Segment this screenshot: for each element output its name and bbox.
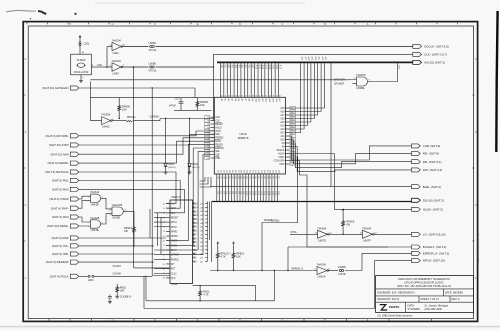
svg-text:.047uF: .047uF (169, 105, 177, 108)
svg-text:BUSHLT- (SHT.3): BUSHLT- (SHT.3) (423, 245, 446, 249)
inductor L301 (79, 42, 81, 44)
svg-text:CLK- (SHT.4,5,7): CLK- (SHT.4,5,7) (424, 53, 447, 57)
AND gate U644B 74AS08 (91, 220, 101, 228)
title block row dividers (376, 289, 474, 302)
svg-text:A10: A10 (280, 139, 285, 142)
svg-text:D11: D11 (248, 170, 250, 173)
svg-text:31: 31 (207, 124, 209, 126)
CPU top pin wires to address bus (220, 63, 278, 97)
svg-text:D14: D14 (257, 170, 259, 173)
svg-text:A14: A14 (268, 99, 271, 102)
svg-text:U642: U642 (113, 51, 120, 55)
capacitor C604 with ground (108, 295, 112, 300)
svg-text:D3: D3 (225, 170, 227, 172)
svg-text:25: 25 (163, 236, 165, 238)
svg-text:A10: A10 (254, 65, 257, 70)
svg-text:A19: A19 (311, 57, 314, 60)
svg-text:PEACK: PEACK (277, 149, 285, 152)
svg-text:G: G (112, 23, 114, 26)
svg-text:D19: D19 (272, 170, 274, 173)
svg-text:NPCS- (SHT.10): NPCS- (SHT.10) (423, 259, 445, 263)
off-page flag RA1 (52, 178, 79, 182)
svg-text:M/IO: M/IO (279, 164, 284, 166)
wire SOCLK- to right flag (156, 46, 413, 48)
svg-text:G: G (112, 319, 114, 322)
svg-text:A12: A12 (280, 132, 285, 135)
svg-text:(SHT.3) REFERF: (SHT.3) REFERF (46, 260, 69, 264)
junction (261, 270, 262, 271)
svg-text:NMI: NMI (215, 134, 220, 136)
wire ERROR_A bottom rail (210, 270, 274, 272)
svg-text:D16: D16 (263, 170, 265, 173)
U614 data pin collector wires (208, 202, 212, 263)
svg-text:DRAWN BY: B.R.R.: DRAWN BY: B.R.R. (377, 297, 400, 301)
svg-text:(SHT.4) RA3: (SHT.4) RA3 (52, 215, 69, 219)
wires gate outputs to U639B (101, 198, 112, 224)
svg-text:74AS04: 74AS04 (112, 59, 122, 63)
svg-text:PEREQ-: PEREQ- (264, 220, 273, 222)
off-page flag HLDA- (412, 207, 443, 211)
wire gate output to A19 bus (368, 63, 398, 81)
svg-text:ENGINEER: B.M. NIEDZWIECKI: ENGINEER: B.M. NIEDZWIECKI (377, 291, 415, 295)
svg-text:30: 30 (207, 121, 209, 123)
svg-text:(SHT.6) RA1: (SHT.6) RA1 (52, 179, 69, 183)
svg-text:U642A: U642A (318, 275, 326, 279)
wires CPU shared status pins down to U614 (166, 145, 211, 255)
svg-text:U644B: U644B (91, 228, 99, 232)
svg-text:470-0L: 470-0L (149, 48, 158, 52)
diode D603 (165, 119, 167, 164)
wire RETGNA routing (79, 172, 176, 204)
svg-text:10K: 10K (120, 289, 125, 293)
scan artifact faint streak bottom (0, 326, 500, 328)
wire CLK to CPU (156, 66, 214, 68)
svg-text:L608N: L608N (338, 265, 346, 269)
inverter U607E 74AS04 (318, 230, 328, 238)
off-page flag REFE- (47, 224, 79, 228)
svg-text:D7: D7 (237, 170, 239, 172)
svg-text:UB: UB (124, 229, 128, 233)
off-page flag INTR (49, 143, 79, 147)
svg-text:(C) 1985 Zenith Data Systems: (C) 1985 Zenith Data Systems (378, 314, 414, 318)
+5V arrow above RP612-7 (217, 242, 219, 246)
svg-text:16 MHZ: 16 MHZ (76, 58, 86, 62)
svg-text:ASSY NO. 181-4916-2B FOR PN 8: ASSY NO. 181-4916-2B FOR PN 85-3241-01 (397, 284, 452, 288)
resistor RP613 (133, 224, 136, 237)
svg-text:D: D (239, 23, 241, 26)
junction RP613 to ISA- line (133, 245, 134, 246)
svg-text:DHE: DHE (215, 158, 220, 160)
svg-text:74AS08: 74AS08 (90, 216, 100, 220)
svg-text:A13: A13 (280, 128, 285, 131)
wire to U642 input (106, 47, 108, 68)
svg-text:A18: A18 (280, 111, 285, 114)
svg-text:A16: A16 (300, 57, 303, 60)
svg-text:DATE: 08/19/86: DATE: 08/19/86 (445, 291, 464, 295)
svg-text:A19: A19 (280, 107, 285, 110)
svg-text:A4: A4 (234, 99, 237, 101)
wire vertical from GATE4AN line down to clock divider (151, 88, 153, 276)
svg-text:D20: D20 (275, 170, 277, 173)
svg-text:74AS11: 74AS11 (90, 190, 100, 194)
wire L301 to oscillator (79, 46, 81, 54)
wire U643 output to L608D (123, 66, 149, 68)
svg-text:A11: A11 (281, 135, 286, 138)
svg-text:BUSY: BUSY (215, 141, 222, 143)
svg-text:BHE- (SHT.3): BHE- (SHT.3) (423, 185, 441, 189)
svg-text:4.7K: 4.7K (203, 292, 209, 296)
ground below oscillator (79, 79, 83, 83)
svg-text:A21: A21 (317, 57, 320, 60)
svg-text:27: 27 (163, 245, 165, 247)
svg-text:26: 26 (163, 241, 165, 243)
AND gate U639B 74ALS08 (112, 207, 123, 216)
svg-text:U608E: U608E (357, 86, 365, 90)
svg-text:D4: D4 (228, 170, 230, 172)
svg-text:74HC08: 74HC08 (356, 73, 366, 77)
wire U639B output down with series resistor RP613 (123, 211, 134, 223)
svg-text:HOLD: HOLD (215, 127, 222, 129)
wire NMI routing (79, 138, 214, 154)
svg-text:A7: A7 (244, 99, 247, 101)
off-page flag ISA- (52, 244, 79, 248)
wire RDY286- routing (79, 131, 214, 136)
wire SHE/HLDA stubs (290, 162, 412, 170)
svg-text:(SHT.3) ISB-: (SHT.3) ISB- (52, 252, 69, 256)
svg-text:ZENITH: ZENITH (389, 305, 399, 309)
svg-text:ERROR: ERROR (171, 255, 180, 257)
wire +5V pull-up rail (90, 97, 213, 99)
wire BATENOR corner into gate (350, 79, 357, 81)
resistor R602 10K (116, 284, 119, 295)
svg-text:C617: C617 (175, 99, 181, 101)
off-page flag BHE- (412, 185, 441, 189)
svg-text:(36-07): (36-07) (168, 167, 175, 169)
svg-text:WR- (SHT.3,4): WR- (SHT.3,4) (423, 168, 443, 172)
svg-text:33: 33 (207, 131, 209, 133)
jumper E604 (79, 275, 88, 277)
svg-text:74AS04: 74AS04 (101, 113, 111, 117)
svg-text:10K: 10K (122, 107, 127, 111)
svg-text:74AS04: 74AS04 (112, 38, 122, 42)
junction (213, 66, 214, 67)
resistor RP612-7 4.7K (216, 246, 219, 265)
svg-text:D0: D0 (217, 170, 219, 172)
svg-text:80286-8: 80286-8 (238, 136, 249, 140)
junction (152, 87, 153, 88)
inverter U642A 74AS04 (317, 267, 327, 275)
svg-text:CKM: CKM (171, 208, 176, 210)
svg-text:D5: D5 (231, 170, 233, 172)
AND gate U608E 74HC08 (357, 77, 368, 86)
svg-text:(SHT.2) OSDF: (SHT.2) OSDF (49, 197, 69, 201)
wires into U614 left pins (154, 213, 166, 273)
svg-text:CMD-: CMD- (278, 157, 284, 159)
off-page flag CLK- (413, 52, 447, 56)
off-page flag RA3 (52, 187, 79, 191)
wire to LO- flag (374, 233, 412, 235)
svg-text:D21: D21 (277, 170, 279, 173)
svg-text:38: 38 (207, 148, 209, 150)
svg-text:A0: A0 (220, 99, 223, 101)
svg-text:E604: E604 (88, 280, 94, 282)
svg-text:34: 34 (163, 278, 165, 280)
ground below D603 (164, 171, 168, 175)
wire RA3 routing (79, 189, 184, 212)
svg-text:HLDA: HLDA (278, 153, 285, 156)
off-page flag DE286- (48, 161, 79, 165)
svg-text:A18: A18 (307, 57, 310, 60)
svg-text:U614: U614 (172, 283, 178, 286)
svg-text:C: C (282, 319, 284, 322)
off-page flag RA3 (52, 215, 79, 219)
oscillator Y601 16 MHz (71, 54, 92, 75)
ground below C604 (108, 300, 112, 304)
svg-text:(SHT.10) INTR: (SHT.10) INTR (49, 143, 70, 147)
svg-text:A19: A19 (397, 66, 400, 69)
svg-text:CPUNOR: CPUNOR (334, 83, 344, 85)
off-page flag RSA (52, 236, 79, 240)
svg-text:BATENOR: BATENOR (334, 78, 345, 81)
svg-text:(SHT.10) NMI: (SHT.10) NMI (51, 152, 69, 156)
svg-text:BUSY: BUSY (171, 250, 178, 252)
inner border frame (28, 26, 473, 319)
svg-text:29: 29 (207, 117, 209, 119)
svg-text:10K: 10K (236, 255, 241, 259)
CPU U619 80286-8 body (214, 97, 285, 174)
off-page flag ERROR_A- (412, 251, 450, 255)
svg-text:D12: D12 (251, 170, 253, 173)
svg-text:18: 18 (163, 203, 165, 205)
svg-text:OSC: OSC (97, 64, 102, 67)
inverter U643 74AS04 (112, 63, 121, 72)
svg-text:U643B: U643B (91, 203, 99, 207)
svg-text:U643: U643 (113, 71, 120, 75)
wires from lower-left flags (79, 238, 166, 262)
svg-text:ERROR: ERROR (215, 148, 224, 150)
svg-text:A14: A14 (280, 125, 285, 128)
address bus A(0:19) thick line (217, 61, 413, 63)
wires CPU status pins to lower left (200, 177, 212, 187)
svg-text:(SHT.6) RA3: (SHT.6) RA3 (52, 188, 69, 192)
resistor RP611A series (112, 120, 126, 122)
wire to ERROR_A- flag corner (345, 270, 362, 272)
svg-text:A6: A6 (241, 99, 244, 101)
svg-text:41: 41 (207, 158, 209, 160)
wire CLK286 (152, 275, 170, 277)
off-page flag BUSHLT- (412, 245, 447, 249)
svg-text:A2: A2 (227, 99, 230, 101)
svg-text:OSCILLATOR: OSCILLATOR (74, 71, 89, 74)
svg-text:181-4916-2B REV A SHEET 1: 181-4916-2B REV A SHEET 1 (476, 233, 479, 264)
+5V arrow above L301 (79, 36, 81, 41)
svg-text:RP611A: RP611A (127, 116, 136, 119)
junction BUSHLT tap (287, 270, 288, 271)
svg-text:470-0L: 470-0L (338, 272, 347, 276)
off-page flag POLK (50, 274, 79, 278)
off-page flag A(0:19) bus (413, 60, 445, 64)
ferrite bead L608A (150, 45, 152, 47)
wire below U614 to R601 (193, 286, 256, 301)
resistor RP608 10K (196, 98, 199, 111)
svg-text:A10: A10 (254, 99, 257, 102)
wire CLK- to right flag (213, 53, 412, 55)
svg-text:COE (SHT.9): COE (SHT.9) (423, 144, 441, 148)
wire INTR routing (79, 134, 214, 145)
capacitor C617 .047uF (179, 98, 184, 111)
svg-text:A5: A5 (237, 99, 240, 101)
svg-text:UB: UB (346, 223, 350, 227)
wire PEREQ drop to ERROR rail (261, 223, 263, 271)
svg-text:(616) 982-3200: (616) 982-3200 (425, 307, 443, 311)
svg-text:NPRD: NPRD (171, 231, 178, 233)
svg-text:INTR: INTR (215, 131, 221, 133)
inverter U641C 74AS04 (102, 117, 111, 125)
svg-text:A16: A16 (275, 65, 278, 70)
svg-text:SHEET 1 OF 12: SHEET 1 OF 12 (421, 297, 440, 301)
wire NPS1 into inverters (290, 233, 318, 235)
wire oscillator pin 7 to ground (80, 75, 82, 79)
svg-text:RESET: RESET (171, 217, 179, 219)
svg-text:74AS04: 74AS04 (362, 226, 372, 230)
svg-text:CLK: CLK (171, 213, 176, 215)
svg-text:D1: D1 (219, 170, 221, 172)
off-page flag RAF- (51, 206, 79, 210)
off-page flag RDY286- (45, 134, 78, 138)
off-page flag WR- (412, 168, 443, 172)
svg-text:4.7K: 4.7K (220, 255, 226, 259)
svg-text:L608A: L608A (149, 41, 157, 45)
off-page flag REFERF (46, 260, 79, 264)
svg-text:(SHT.3) RETGNA: (SHT.3) RETGNA (45, 170, 69, 174)
svg-text:A15: A15 (272, 65, 275, 70)
resistor RP610 10K (232, 246, 235, 265)
wire up to ERROR_A- flag (362, 253, 412, 270)
svg-text:D9: D9 (243, 170, 245, 172)
off-page flag SOCLK- (413, 44, 449, 48)
svg-text:COD-INTA: COD-INTA (273, 160, 285, 163)
svg-text:D13: D13 (254, 170, 256, 173)
wire CLK vertical to 80287 clock logic (133, 67, 135, 268)
svg-text:LO- (SHT.5,8,10): LO- (SHT.5,8,10) (423, 232, 446, 236)
wire CLK drop to CPU CLK pin (212, 67, 214, 121)
wire ERROR_A (274, 270, 317, 272)
+5V arrow above RP610 (233, 242, 235, 246)
svg-text:St. Joseph, Michigan: St. Joseph, Michigan (425, 304, 449, 308)
resistor RP609 10K (118, 98, 121, 119)
wire CLK branch (212, 54, 214, 67)
svg-text:(SHT.4) RAF-: (SHT.4) RAF- (51, 206, 69, 210)
wire BATENOR across page (90, 79, 350, 81)
CPU high address wires fan up to bus (290, 63, 325, 132)
svg-text:A17: A17 (278, 65, 281, 70)
svg-text:A23: A23 (324, 57, 327, 60)
scan artifact smudge top-left (6, 10, 36, 12)
ground below R602 (115, 295, 119, 299)
svg-text:A(0:19) (SHT.3): A(0:19) (SHT.3) (424, 61, 445, 65)
svg-text:A22: A22 (321, 57, 324, 60)
ferrite bead L608N (339, 269, 341, 271)
CPU bottom pin wires to data bus (217, 174, 278, 202)
svg-text:REV: A: REV: A (452, 297, 460, 301)
wire CPUNOR input (353, 82, 357, 84)
svg-text:RESET: RESET (215, 124, 223, 126)
svg-text:D2: D2 (222, 170, 224, 172)
svg-text:(SHT.3) DE286-: (SHT.3) DE286- (48, 161, 69, 165)
svg-text:D17: D17 (266, 170, 268, 173)
wire down to U641C input (89, 98, 91, 121)
svg-text:L301: L301 (84, 41, 90, 45)
svg-text:CMD1: CMD1 (171, 245, 178, 247)
svg-text:A15: A15 (280, 121, 285, 124)
svg-text:A12: A12 (261, 99, 264, 102)
svg-text:HLDA- (SHT.3): HLDA- (SHT.3) (423, 207, 443, 211)
svg-text:D15: D15 (260, 170, 262, 173)
off-page flag ISB- (52, 252, 79, 256)
svg-text:CLK8MA: CLK8MA (150, 116, 160, 119)
svg-text:A9: A9 (251, 99, 254, 101)
zone tick marks top/bottom (27, 23, 458, 321)
svg-text:PEREQ: PEREQ (171, 259, 179, 261)
wire DE286- routing (79, 141, 214, 163)
svg-text:74AS04: 74AS04 (317, 226, 327, 230)
junction CLK node (133, 66, 135, 68)
svg-text:S0E: S0E (215, 151, 220, 153)
svg-text:A12: A12 (261, 65, 264, 70)
scan artifact black bar right edge (496, 11, 497, 152)
wire data collector vertical (207, 204, 209, 262)
svg-text:A17: A17 (280, 114, 285, 117)
svg-text:RD- (SHT.9): RD- (SHT.9) (423, 152, 439, 156)
svg-text:NPWR: NPWR (171, 236, 178, 238)
svg-text:24: 24 (163, 231, 165, 233)
wire RA1 routing (79, 181, 180, 209)
AND gate U643B 74AS11 (91, 194, 101, 202)
svg-text:D18: D18 (269, 170, 271, 173)
svg-text:(SHT.10) GATE4AN: (SHT.10) GATE4AN (42, 86, 68, 90)
svg-text:470-0L: 470-0L (149, 69, 158, 73)
svg-text:(SHT.10) REFE-: (SHT.10) REFE- (47, 224, 69, 228)
svg-text:DATA: DATA (408, 304, 415, 308)
wire U642 output to L608A (123, 46, 149, 48)
svg-text:A1: A1 (224, 99, 227, 101)
svg-text:D8: D8 (240, 170, 242, 172)
svg-text:(SHT.4) POLK: (SHT.4) POLK (50, 274, 69, 278)
wire GATE4AN across to pull-up rail (79, 88, 195, 98)
off-page flag D(0:15) bus (412, 198, 444, 202)
wire RP609 to CLK8MA line (118, 115, 120, 119)
off-page flag RETGNA (45, 170, 79, 174)
junction OSC node (106, 66, 108, 68)
svg-text:(SHT.3) RSA: (SHT.3) RSA (52, 236, 69, 240)
wire CLK287 (134, 267, 171, 269)
wires gate output area to U614 pins (150, 209, 161, 254)
svg-text:A20: A20 (314, 57, 317, 60)
svg-text:ERROR_A- (SHT.2): ERROR_A- (SHT.2) (423, 251, 450, 255)
svg-text:39: 39 (207, 151, 209, 153)
wire corner at x=90 (89, 81, 91, 97)
ferrite bead L608D (150, 66, 152, 68)
svg-text:35: 35 (207, 138, 209, 140)
svg-text:READY: READY (215, 143, 223, 146)
svg-text:NPS1: NPS1 (171, 222, 178, 224)
svg-text:A16: A16 (275, 99, 278, 102)
svg-text:A15: A15 (271, 99, 274, 102)
svg-text:34: 34 (207, 134, 209, 136)
CPU control wires to command flags (290, 136, 412, 171)
svg-text:U607E: U607E (318, 238, 326, 242)
svg-text:CLK286: CLK286 (113, 274, 122, 276)
